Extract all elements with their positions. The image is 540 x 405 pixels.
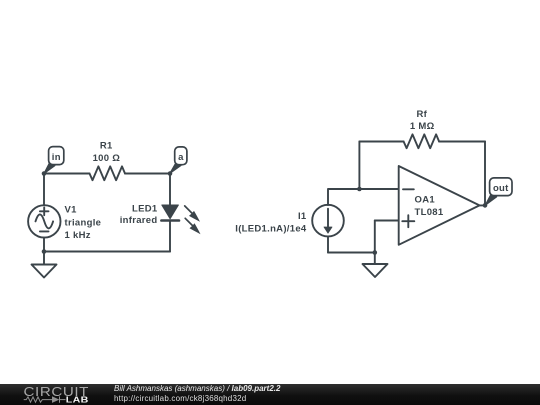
svg-text:100 Ω: 100 Ω — [93, 153, 121, 164]
svg-text:I1: I1 — [298, 211, 307, 222]
label OA1 value — [415, 194, 444, 218]
wire: ground stub right — [374, 253, 376, 265]
footer attribution text — [114, 384, 280, 393]
junction dot at left bottom rail — [42, 249, 47, 254]
wire: feedback top left to Rf — [359, 141, 403, 143]
wire: ground stub left — [43, 252, 45, 265]
wire: non-inverting input stub — [375, 220, 399, 222]
svg-text:a: a — [178, 152, 184, 163]
svg-text:LED1: LED1 — [132, 203, 158, 214]
wire: Rf to feedback right vertical — [439, 141, 485, 143]
resistor Rf — [404, 134, 440, 148]
svg-text:OA1: OA1 — [415, 194, 436, 205]
label LED1 value — [120, 203, 158, 226]
svg-text:1 MΩ: 1 MΩ — [410, 121, 435, 132]
svg-text:in: in — [52, 152, 61, 163]
wire: feedback right vertical down to output — [484, 142, 486, 206]
LED1 emission arrows — [185, 206, 201, 234]
node label a — [170, 147, 187, 173]
svg-text:Rf: Rf — [416, 109, 427, 120]
wire: bottom rail I1 to ground junction — [328, 252, 375, 254]
resistor R1 — [90, 166, 126, 180]
junction dot at output node — [483, 203, 488, 208]
svg-text:1 kHz: 1 kHz — [65, 230, 91, 241]
wire: non-inverting vertical down — [374, 221, 376, 253]
junction dot at inverting input — [357, 187, 362, 192]
node label out — [486, 178, 513, 205]
CircuitLab logo — [0, 384, 100, 405]
svg-text:infrared: infrared — [120, 215, 158, 226]
wire: feedback left vertical — [358, 142, 360, 190]
wire: bottom rail from V1 to LED1 — [44, 251, 170, 253]
LED1 diode body — [161, 205, 179, 221]
label V1 value — [65, 204, 102, 241]
ground (right) — [363, 264, 388, 277]
svg-text:V1: V1 — [65, 204, 78, 215]
current source I1 — [312, 205, 344, 237]
label Rf value — [410, 109, 435, 132]
wire: corner to op-amp inverting input — [359, 188, 398, 190]
junction dot at node in — [42, 171, 47, 176]
wire: node in to R1 left lead — [44, 173, 90, 175]
svg-text:LAB: LAB — [66, 396, 89, 405]
op-amp OA1 — [399, 166, 480, 245]
svg-text:I(LED1.nA)/1e4: I(LED1.nA)/1e4 — [235, 223, 307, 234]
svg-text:TL081: TL081 — [415, 207, 444, 218]
wire: node in down to V1 plus terminal — [43, 174, 45, 206]
junction dot at right ground rail — [373, 250, 378, 255]
footer bar — [0, 384, 540, 405]
wire: node a down to LED1 anode — [169, 174, 171, 206]
wire: V1 minus terminal to bottom rail — [43, 238, 45, 252]
svg-text:R1: R1 — [100, 141, 113, 152]
wire: op-amp output to out node — [480, 204, 486, 206]
wire: LED1 cathode down to bottom rail — [169, 221, 171, 252]
svg-text:triangle: triangle — [65, 217, 102, 228]
label I1 value — [235, 211, 307, 234]
label R1 value — [93, 141, 121, 164]
node label in — [44, 147, 64, 174]
junction dot at node a — [168, 171, 173, 176]
voltage source V1 — [28, 205, 60, 237]
wire: R1 right lead to node a — [125, 173, 170, 175]
wire: I1 top to corner — [328, 189, 359, 205]
ground (left) — [32, 265, 57, 278]
svg-text:out: out — [493, 183, 509, 194]
wire: I1 bottom vertical — [327, 237, 329, 253]
